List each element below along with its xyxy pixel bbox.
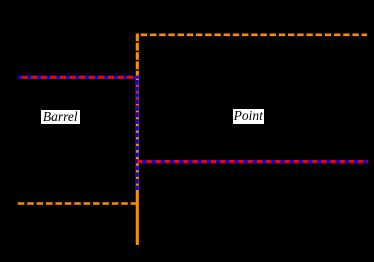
wire: orange vertical transition lower solid part: [136, 77, 139, 245]
wire: red dashes over left horizontal: [18, 76, 136, 79]
wire: red ticks on vertical transition: [136, 77, 139, 190]
wire: blue dashes over right horizontal: [137, 160, 368, 163]
wire: red base of right horizontal (Point level): [137, 160, 368, 163]
wire: blue dashed vertical transition: [136, 77, 139, 190]
node Barrel label: [41, 110, 80, 124]
wire: orange vertical transition upper dashed part: [136, 34, 139, 79]
wire: orange step upper level (Point side): [141, 33, 367, 36]
wire: orange step lower level (Barrel side): [18, 202, 139, 205]
wire: blue base of left horizontal (Barrel level): [18, 76, 140, 79]
node Point label: [233, 109, 265, 124]
